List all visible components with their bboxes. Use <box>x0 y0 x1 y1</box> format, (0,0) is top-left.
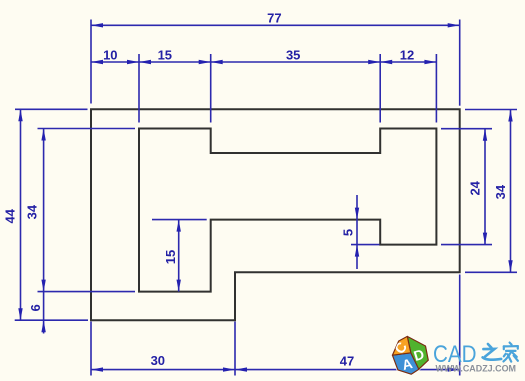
svg-text:35: 35 <box>286 47 300 62</box>
svg-text:44: 44 <box>3 208 18 223</box>
svg-text:WWW.CADZJ.COM: WWW.CADZJ.COM <box>436 364 517 374</box>
svg-text:24: 24 <box>468 180 483 195</box>
svg-text:12: 12 <box>400 47 414 62</box>
svg-text:5: 5 <box>341 229 356 236</box>
svg-text:30: 30 <box>151 353 165 368</box>
svg-text:15: 15 <box>158 47 172 62</box>
svg-text:15: 15 <box>163 250 178 264</box>
svg-text:10: 10 <box>103 47 117 62</box>
svg-text:77: 77 <box>267 10 281 25</box>
svg-text:34: 34 <box>25 204 40 219</box>
svg-text:6: 6 <box>28 304 43 311</box>
svg-text:34: 34 <box>493 184 508 199</box>
svg-text:47: 47 <box>340 353 354 368</box>
